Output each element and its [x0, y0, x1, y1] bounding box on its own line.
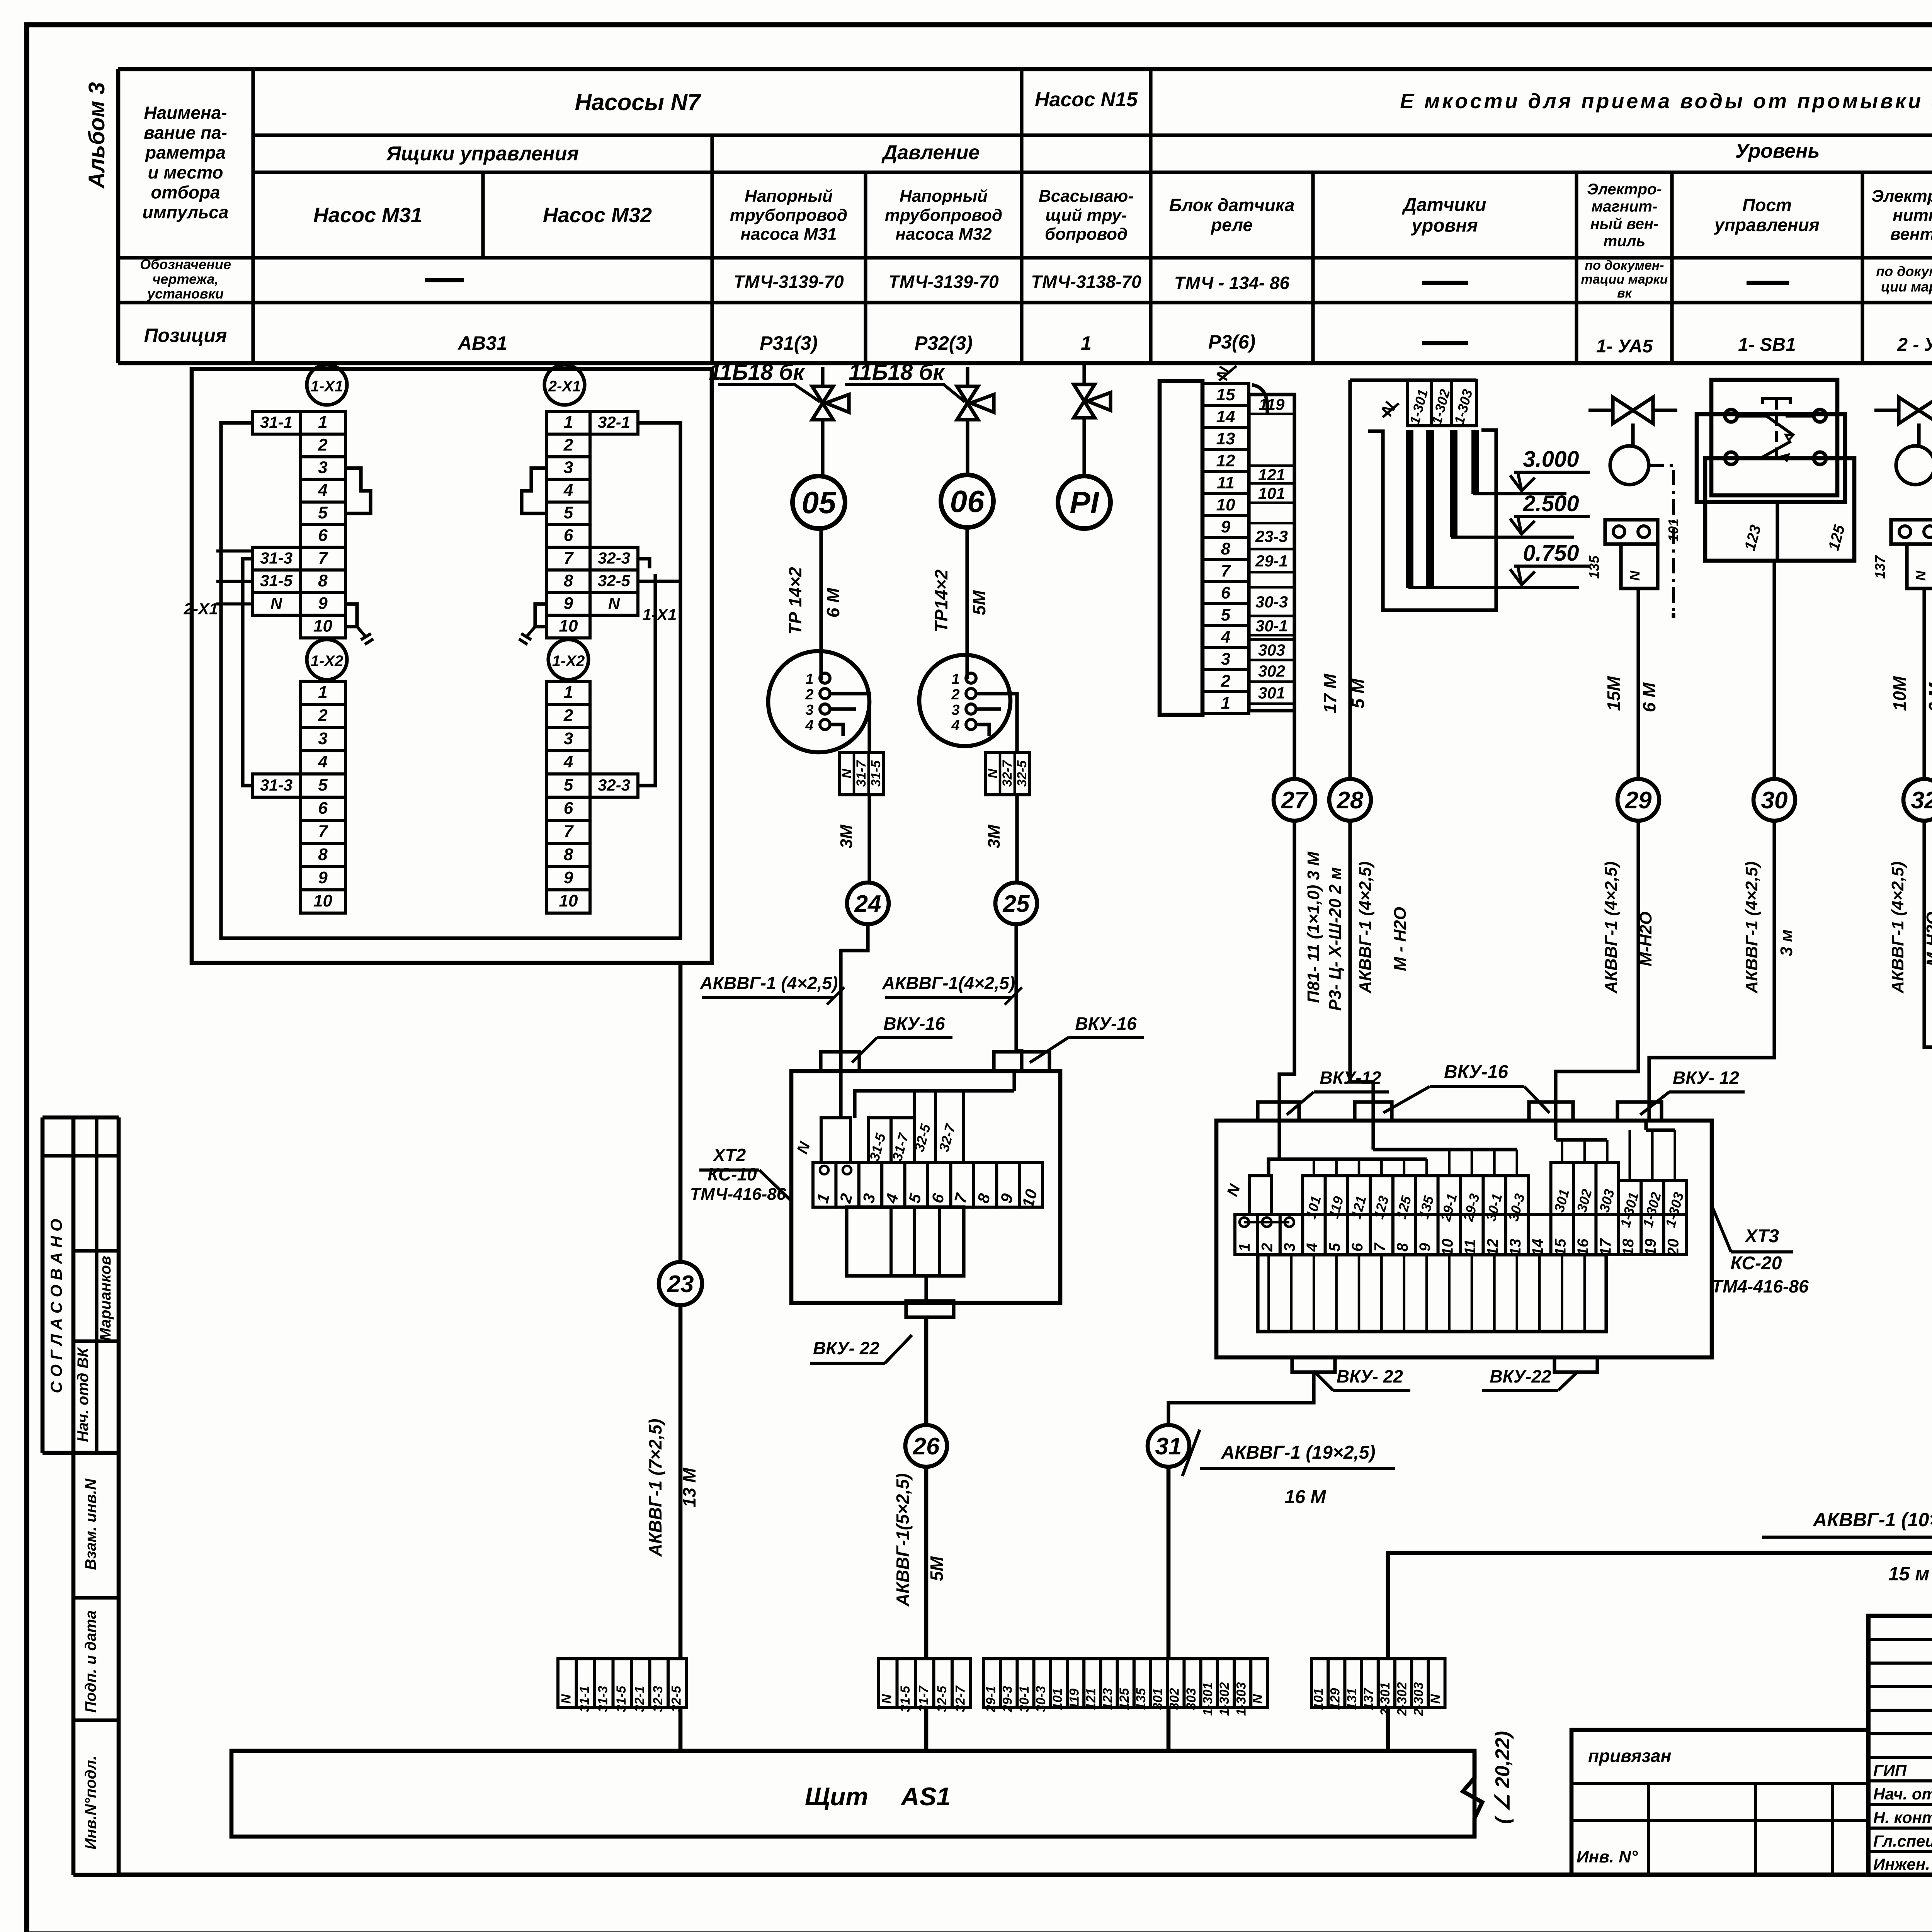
svg-text:5: 5	[318, 503, 328, 522]
svg-text:302: 302	[1258, 662, 1285, 680]
svg-text:5: 5	[564, 776, 573, 794]
terminal strip 1-X2 right pins 1-10	[547, 681, 590, 704]
svg-text:Нач. отд ВК: Нач. отд ВК	[75, 1347, 92, 1442]
svg-text:131: 131	[1345, 1688, 1359, 1710]
terminal group A	[558, 1659, 577, 1708]
wire 25 down into XT2	[1016, 924, 1022, 1071]
svg-text:29-1: 29-1	[983, 1686, 998, 1713]
svg-text:КС-10: КС-10	[707, 1164, 757, 1184]
svg-text:Насос М31: Насос М31	[313, 204, 422, 227]
circle 30	[1753, 779, 1795, 821]
wire XT2 to circle 26	[924, 1276, 928, 1301]
svg-text:отбора: отбора	[151, 182, 220, 202]
ground symbol strip 1-X1	[357, 627, 373, 645]
svg-text:2: 2	[1221, 672, 1231, 690]
relay label 302	[1249, 659, 1294, 662]
svg-text:16 М: 16 М	[1285, 1487, 1327, 1507]
valve 11B18bk #2	[957, 386, 978, 420]
svg-text:6: 6	[1349, 1243, 1366, 1252]
svg-text:1: 1	[1236, 1243, 1253, 1252]
svg-text:ТМЧ-3138-70: ТМЧ-3138-70	[1031, 272, 1141, 292]
svg-text:Нач. отд.: Нач. отд.	[1873, 1785, 1932, 1803]
svg-text:4: 4	[1304, 1243, 1321, 1252]
svg-text:1: 1	[318, 413, 327, 432]
svg-text:4: 4	[318, 752, 327, 771]
svg-text:15М: 15М	[1604, 676, 1624, 711]
svg-text:Р3(6): Р3(6)	[1208, 331, 1255, 353]
svg-text:1: 1	[564, 413, 573, 432]
svg-text:вентиль: вентиль	[1890, 225, 1932, 244]
svg-text:10М: 10М	[1889, 676, 1910, 711]
solenoid actuator circle solenoid valve 1-UA5	[1631, 423, 1634, 446]
circle 27	[1274, 779, 1315, 821]
svg-text:7: 7	[564, 822, 574, 841]
XT2 terminal strip 1..10	[813, 1163, 836, 1207]
svg-text:6: 6	[318, 526, 328, 545]
svg-text:привязан: привязан	[1588, 1746, 1671, 1766]
svg-text:302: 302	[1167, 1688, 1182, 1710]
wire 32 down to XT4 tab1	[1924, 821, 1932, 1166]
circle 32	[1903, 779, 1932, 821]
XT2 label box 31-7	[891, 1118, 914, 1163]
svg-text:5М: 5М	[927, 1556, 947, 1581]
round connector B (4-pin)	[919, 655, 1010, 746]
svg-text:1-X1: 1-X1	[643, 605, 677, 624]
wire to circle 25	[1015, 795, 1019, 883]
svg-text:Р31(3): Р31(3)	[760, 332, 818, 354]
svg-text:Насосы N7: Насосы N7	[575, 89, 701, 115]
svg-text:насоса М31: насоса М31	[740, 225, 837, 244]
svg-text:2: 2	[563, 435, 573, 454]
connector 1-X2 left circle	[307, 639, 347, 680]
svg-text:по документа-: по документа-	[1876, 264, 1932, 279]
svg-text:0.750: 0.750	[1523, 541, 1579, 566]
svg-text:7: 7	[318, 822, 328, 841]
svg-text:2-X1: 2-X1	[184, 600, 218, 618]
svg-text:32: 32	[1911, 787, 1932, 814]
wire label-column to circle 27	[1293, 711, 1296, 779]
svg-text:121: 121	[1258, 466, 1285, 484]
XT2 label box 32-5	[914, 1091, 935, 1163]
svg-text:18: 18	[1620, 1238, 1637, 1256]
dash datchiki pozitsiya	[1422, 341, 1468, 345]
svg-text:РI: РI	[1070, 485, 1099, 520]
svg-text:4: 4	[1221, 628, 1230, 646]
svg-text:7: 7	[318, 549, 328, 568]
level glyph bus	[1350, 378, 1476, 382]
connector 2-X1 circle	[544, 365, 585, 405]
privyazan table	[1571, 1730, 1868, 1875]
svg-text:1-X2: 1-X2	[311, 653, 344, 670]
XT3 top tab	[1355, 1102, 1392, 1121]
circle 29	[1617, 779, 1659, 821]
wire 24 down into XT2	[841, 924, 868, 1071]
circle 25	[995, 883, 1037, 924]
svg-text:Инв.N°подл.: Инв.N°подл.	[82, 1756, 99, 1850]
svg-text:трубопровод: трубопровод	[885, 206, 1002, 224]
svg-text:3 м: 3 м	[1777, 929, 1796, 956]
instrument circle 06	[966, 420, 969, 475]
svg-text:31-5: 31-5	[614, 1685, 629, 1712]
svg-text:Марианков: Марианков	[97, 1256, 114, 1341]
svg-text:Н. контр.: Н. контр.	[1873, 1808, 1932, 1827]
svg-text:1: 1	[564, 683, 573, 702]
svg-text:магнит-: магнит-	[1592, 198, 1658, 215]
pin 4 connector A	[820, 719, 830, 730]
svg-text:32-7: 32-7	[953, 1685, 968, 1712]
XT3 feed bus wires	[1269, 1121, 1646, 1176]
label 32-1 at pin1	[590, 412, 638, 434]
svg-text:трубопровод: трубопровод	[730, 206, 847, 224]
svg-text:N: N	[608, 594, 621, 612]
svg-text:ТМЧ-3139-70: ТМЧ-3139-70	[888, 272, 999, 292]
svg-text:7: 7	[1221, 561, 1231, 580]
svg-text:11: 11	[1217, 473, 1235, 492]
svg-text:135: 135	[1134, 1688, 1148, 1710]
svg-text:ВКУ-16: ВКУ-16	[1075, 1014, 1137, 1034]
svg-text:13 М: 13 М	[679, 1467, 699, 1507]
svg-text:N: N	[839, 768, 854, 778]
svg-text:24: 24	[854, 891, 881, 917]
stem 05 to round connector	[819, 529, 823, 680]
svg-text:29-3: 29-3	[1000, 1686, 1015, 1713]
svg-text:303: 303	[1258, 641, 1285, 659]
svg-text:137: 137	[1872, 555, 1888, 579]
svg-text:нитный: нитный	[1893, 206, 1932, 224]
svg-text:1: 1	[318, 683, 327, 702]
relay label 101	[1249, 482, 1294, 485]
svg-text:14: 14	[1216, 407, 1235, 426]
solenoid valve 2-UA5	[1899, 397, 1932, 423]
svg-text:3М: 3М	[837, 824, 856, 848]
svg-text:ТМ4-416-86: ТМ4-416-86	[1711, 1276, 1809, 1296]
svg-text:М - Н2О: М - Н2О	[1391, 907, 1410, 971]
svg-text:13: 13	[1216, 429, 1235, 448]
XT3 top tab	[1529, 1102, 1573, 1121]
svg-text:1: 1	[1221, 694, 1230, 713]
svg-text:N: N	[559, 1694, 573, 1704]
wire XT3 tab1 to circle 31	[1168, 1372, 1314, 1425]
svg-text:25: 25	[1003, 891, 1030, 917]
relay label 30-3	[1249, 586, 1294, 589]
svg-text:3: 3	[564, 458, 573, 477]
svg-text:ции марки ВК: ции марки ВК	[1881, 279, 1932, 295]
svg-text:( ∠ 20,22): ( ∠ 20,22)	[1492, 1731, 1514, 1824]
svg-text:N: N	[879, 1694, 894, 1704]
svg-text:28: 28	[1337, 787, 1364, 814]
svg-text:2-301: 2-301	[1378, 1682, 1393, 1716]
XT2 label box N (blank)	[821, 1118, 850, 1163]
svg-text:бопровод: бопровод	[1045, 225, 1128, 244]
svg-text:Подп. и дата: Подп. и дата	[82, 1611, 99, 1713]
svg-text:3: 3	[805, 702, 813, 718]
svg-text:Насос М32: Насос М32	[543, 204, 652, 227]
control-box outline (pump control boxes AB31)	[192, 369, 712, 963]
XT3 pin circle	[1240, 1218, 1249, 1227]
svg-text:П81- 11 (1×1,0) 3 М: П81- 11 (1×1,0) 3 М	[1304, 851, 1323, 1003]
svg-text:31-7: 31-7	[854, 760, 869, 787]
XT3 bottom tabs VKU-22	[1292, 1357, 1335, 1372]
svg-text:2: 2	[951, 687, 959, 703]
circle 28	[1329, 779, 1371, 821]
svg-text:301: 301	[1258, 684, 1285, 702]
svg-text:3: 3	[564, 729, 573, 748]
instrument circle 05	[821, 420, 824, 476]
svg-text:10: 10	[313, 617, 332, 636]
svg-text:ТМЧ-3139-70: ТМЧ-3139-70	[733, 272, 844, 292]
svg-text:11Б18 бк: 11Б18 бк	[709, 360, 805, 385]
svg-text:10: 10	[559, 617, 578, 636]
svg-text:6 М: 6 М	[1925, 682, 1932, 712]
terminal group D	[1311, 1659, 1328, 1708]
svg-text:реле: реле	[1210, 215, 1253, 235]
stem 06 to round connector B	[965, 527, 969, 679]
svg-text:ТР 14×2: ТР 14×2	[785, 567, 805, 635]
svg-text:32-5: 32-5	[935, 1685, 949, 1712]
wire 27 down to XT3 tab1	[1279, 821, 1294, 1121]
svg-text:137: 137	[1361, 1687, 1376, 1710]
wire group A to shield AS1	[679, 1709, 683, 1751]
label box N/32-7/32-5	[985, 752, 1030, 795]
pin 1 connector B	[966, 673, 976, 683]
label 31-3 at pin5 of 1-X2	[252, 774, 300, 797]
XT3 top tab	[1258, 1102, 1299, 1121]
svg-text:6 М: 6 М	[823, 587, 843, 617]
svg-text:АКВВГ-1(4×2,5): АКВВГ-1(4×2,5)	[882, 973, 1015, 993]
svg-text:5: 5	[318, 776, 328, 794]
wire stubs 31-3,31-5,N to 2-X1 cable left	[216, 549, 252, 553]
pin 4 connector B	[966, 719, 976, 730]
XT3 lower combs	[1258, 1255, 1606, 1332]
svg-text:121: 121	[1084, 1688, 1099, 1710]
svg-text:ВКУ-22: ВКУ-22	[1490, 1366, 1551, 1386]
wire 32-3 pin7 to 1-X2r pin5	[638, 559, 650, 568]
wire to circle 24	[867, 795, 871, 883]
svg-text:чертежа,: чертежа,	[152, 271, 218, 287]
svg-text:6: 6	[1221, 583, 1231, 602]
instrument circle PI	[1082, 418, 1086, 476]
svg-text:23-3: 23-3	[1255, 527, 1288, 546]
svg-text:Взам. инв.N: Взам. инв.N	[82, 1478, 99, 1570]
svg-text:6: 6	[318, 799, 328, 818]
svg-text:8: 8	[1221, 539, 1231, 558]
relay label 121	[1249, 464, 1294, 467]
svg-text:Насос N15: Насос N15	[1035, 88, 1138, 111]
svg-text:5М: 5М	[969, 590, 989, 615]
svg-text:3: 3	[1221, 650, 1230, 668]
svg-text:12: 12	[1216, 451, 1235, 470]
svg-text:27: 27	[1281, 787, 1309, 814]
XT2 bottom tab (VKU-22)	[906, 1301, 954, 1317]
svg-text:ХТ2: ХТ2	[712, 1145, 746, 1165]
svg-text:23: 23	[667, 1271, 694, 1298]
pin 2 connector B	[966, 689, 976, 699]
svg-text:Электромаг-: Электромаг-	[1871, 187, 1932, 206]
electrodes	[1406, 430, 1413, 588]
wire 26 to group B	[924, 1467, 929, 1659]
svg-text:3: 3	[318, 729, 327, 748]
label N at pin9 right strip	[590, 593, 638, 616]
svg-text:2: 2	[1259, 1243, 1276, 1252]
svg-text:3.000: 3.000	[1523, 447, 1579, 472]
svg-text:вание па-: вание па-	[144, 122, 227, 143]
ground symbol strip 2-X1	[519, 627, 535, 645]
svg-text:20: 20	[1665, 1239, 1682, 1257]
svg-text:ВКУ-12: ВКУ-12	[1320, 1068, 1381, 1088]
XT3 pin circle	[1285, 1218, 1294, 1227]
svg-text:1- SВ1: 1- SВ1	[1738, 335, 1796, 355]
valve at PI	[1074, 384, 1095, 418]
svg-text:5: 5	[1327, 1243, 1344, 1252]
terminal group C	[984, 1659, 1000, 1708]
terminal strip 2-X1 pins 1-10	[547, 412, 590, 434]
svg-text:19: 19	[1642, 1238, 1659, 1256]
svg-text:9: 9	[318, 868, 328, 887]
svg-text:ВКУ- 22: ВКУ- 22	[1337, 1366, 1403, 1386]
svg-text:уровня: уровня	[1411, 216, 1478, 236]
svg-text:АКВВГ-1 (19×2,5): АКВВГ-1 (19×2,5)	[1221, 1442, 1375, 1463]
jumper pin 9-10 and ground strip 2-X1	[535, 604, 547, 627]
svg-text:8: 8	[1394, 1243, 1411, 1252]
svg-text:119: 119	[1259, 395, 1285, 413]
svg-text:1: 1	[1081, 332, 1092, 354]
sensor box solenoid valve 2-UA5	[1891, 520, 1932, 544]
svg-text:насоса М32: насоса М32	[895, 225, 992, 244]
svg-text:С О Г Л А С О В А Н О: С О Г Л А С О В А Н О	[47, 1219, 65, 1393]
svg-text:1- УА5: 1- УА5	[1596, 336, 1653, 357]
svg-text:9: 9	[1221, 517, 1231, 536]
svg-text:9: 9	[564, 868, 573, 887]
svg-text:2: 2	[563, 706, 573, 725]
svg-text:2.500: 2.500	[1522, 491, 1579, 516]
relay block body	[1160, 381, 1202, 715]
level label 1-303	[1452, 380, 1476, 426]
svg-text:2-X1: 2-X1	[548, 378, 581, 395]
svg-text:АКВВГ-1 (4×2,5): АКВВГ-1 (4×2,5)	[1742, 861, 1761, 993]
svg-text:щий тру-: щий тру-	[1045, 206, 1127, 224]
svg-text:Инжен.: Инжен.	[1873, 1855, 1930, 1873]
hook strip to label column	[1252, 385, 1267, 414]
svg-text:АКВВГ-1 (4×2,5): АКВВГ-1 (4×2,5)	[1356, 861, 1375, 993]
dash-dot link solenoid valve 1-UA5	[1649, 465, 1673, 613]
svg-text:3: 3	[318, 458, 327, 477]
label 31-5 at pin8	[252, 570, 300, 593]
XT2 label box 32-7	[935, 1091, 964, 1163]
terminal box XT2 outline	[791, 1071, 1060, 1303]
svg-text:119: 119	[1067, 1689, 1082, 1709]
svg-text:1-X1: 1-X1	[311, 378, 344, 395]
svg-text:вк: вк	[1617, 286, 1633, 301]
tank bracket	[1368, 430, 1496, 610]
svg-text:10: 10	[559, 891, 578, 910]
svg-text:N: N	[1913, 570, 1929, 581]
svg-text:303: 303	[1184, 1688, 1199, 1710]
svg-text:Гл.спец.: Гл.спец.	[1873, 1832, 1932, 1850]
svg-text:АКВВГ-1 (7×2,5): АКВВГ-1 (7×2,5)	[645, 1419, 665, 1557]
wire post to circle 30	[1772, 561, 1776, 779]
pin 3 connector B	[966, 704, 976, 714]
XT2 internal feed wires	[839, 1071, 842, 1118]
pin wires connector B to cable 25	[976, 694, 1017, 752]
label N at pin9	[252, 593, 300, 616]
wire circle23 to terminal group A	[679, 1305, 683, 1659]
svg-text:ХТ3: ХТ3	[1744, 1226, 1779, 1247]
relay strip numbers 15..1	[1202, 383, 1249, 405]
relay label 301	[1249, 680, 1294, 683]
svg-text:4: 4	[563, 481, 573, 500]
circle 24	[847, 883, 889, 924]
svg-text:и место: и место	[148, 162, 223, 182]
label 32-5 at pin8	[590, 570, 638, 593]
svg-text:1-302: 1-302	[1217, 1682, 1232, 1716]
svg-text:32-3: 32-3	[598, 549, 630, 567]
svg-text:301: 301	[1150, 1688, 1165, 1710]
svg-text:9: 9	[1417, 1243, 1434, 1252]
svg-text:30-3: 30-3	[1255, 593, 1288, 611]
svg-text:135: 135	[1586, 555, 1602, 579]
svg-text:32-5: 32-5	[598, 571, 631, 590]
svg-text:32-3: 32-3	[651, 1686, 665, 1712]
XT2 top tab 2 (VKU-16)	[994, 1052, 1049, 1071]
svg-text:31-5: 31-5	[260, 571, 293, 590]
svg-text:31-1: 31-1	[260, 413, 293, 431]
svg-text:ВКУ-16: ВКУ-16	[883, 1014, 945, 1034]
XT3 terminal strip 1..20	[1235, 1214, 1257, 1255]
svg-text:5 М: 5 М	[1348, 678, 1368, 708]
svg-text:Е мкости для прие: Е мкости для приема воды от промывки фил…	[1400, 90, 1932, 113]
svg-text:3: 3	[1281, 1243, 1298, 1252]
svg-text:8: 8	[318, 845, 328, 864]
svg-text:31-3: 31-3	[595, 1686, 610, 1712]
svg-text:N: N	[1627, 570, 1643, 581]
svg-text:управления: управления	[1714, 215, 1820, 235]
pin wires connector A to cable 24	[830, 694, 869, 752]
svg-text:7: 7	[564, 549, 574, 568]
wire 31 to group C	[1167, 1467, 1171, 1659]
wire 30 down to XT3 tab4	[1649, 821, 1774, 1121]
wire 31-3 pin7 to 1-X2 pin5	[243, 559, 252, 786]
svg-text:Альбом 3: Альбом 3	[84, 82, 109, 189]
svg-text:10: 10	[1216, 495, 1235, 514]
svg-text:АКВВГ-1 (4×2,5): АКВВГ-1 (4×2,5)	[1602, 861, 1621, 993]
svg-text:Р3- Ц- Х-Ш-20 2 м: Р3- Ц- Х-Ш-20 2 м	[1326, 867, 1345, 1011]
relay label 29-1	[1249, 548, 1294, 551]
svg-text:2-302: 2-302	[1395, 1682, 1409, 1716]
svg-text:АВ31: АВ31	[457, 332, 507, 354]
svg-text:1-301: 1-301	[1201, 1682, 1215, 1716]
svg-text:Всасываю-: Всасываю-	[1039, 187, 1134, 206]
svg-text:N: N	[985, 768, 1000, 778]
svg-text:КС-20: КС-20	[1731, 1253, 1782, 1274]
svg-text:1-X2: 1-X2	[552, 653, 585, 670]
svg-text:тации марки: тации марки	[1581, 272, 1668, 287]
title block signature table	[1868, 1616, 1932, 1875]
terminal box XT3 outline	[1216, 1121, 1712, 1357]
svg-text:15 м: 15 м	[1888, 1563, 1930, 1585]
XT2 pins cells 1,2	[820, 1166, 828, 1174]
XT2 label box 31-5	[869, 1118, 891, 1163]
svg-text:3М: 3М	[985, 824, 1003, 848]
svg-text:Инв. N°: Инв. N°	[1577, 1847, 1638, 1866]
circle 23	[659, 1262, 702, 1305]
svg-text:129: 129	[1328, 1688, 1343, 1710]
svg-text:30: 30	[1761, 787, 1788, 814]
svg-text:1-303: 1-303	[1234, 1682, 1248, 1716]
svg-text:9: 9	[564, 594, 573, 613]
svg-text:4: 4	[805, 718, 813, 734]
jumper pins 3-5 strip 2-X1	[522, 468, 547, 514]
circle 31	[1148, 1425, 1189, 1467]
